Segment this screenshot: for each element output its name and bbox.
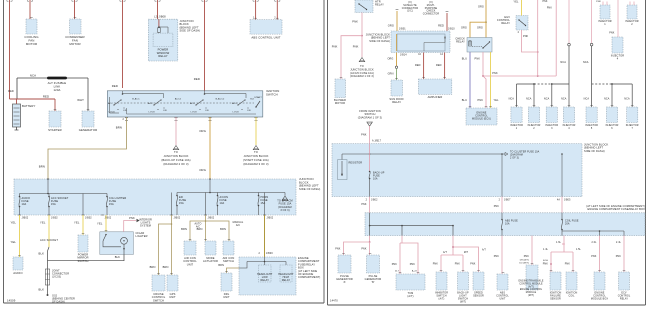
svg-text:LOCK: LOCK — [233, 112, 240, 114]
svg-text:M/T: M/T — [464, 252, 469, 254]
svg-text:RELAY: RELAY — [620, 298, 629, 301]
svg-text:J/B14: J/B14 — [400, 54, 407, 57]
svg-text:MOTOR: MOTOR — [69, 42, 80, 46]
svg-text:ACC: ACC — [148, 102, 153, 105]
svg-text:LOCK: LOCK — [149, 112, 156, 114]
svg-text:ORG: ORG — [477, 27, 483, 30]
svg-text:AMPLIFIER: AMPLIFIER — [428, 95, 443, 99]
svg-text:ORG: ORG — [199, 129, 206, 133]
svg-text:(DIAGRAM 3 OF 3): (DIAGRAM 3 OF 3) — [243, 162, 268, 166]
svg-text:1.6L: 1.6L — [556, 242, 562, 244]
svg-text:ORG: ORG — [387, 58, 393, 61]
svg-text:NCA: NCA — [624, 98, 630, 101]
svg-text:WHT: WHT — [77, 98, 84, 102]
svg-text:YEL: YEL — [11, 221, 17, 225]
svg-text:14470: 14470 — [330, 299, 338, 303]
svg-text:NCA: NCA — [30, 74, 36, 78]
svg-text:(START FUSE 10A): (START FUSE 10A) — [243, 158, 269, 162]
svg-text:ACC2: ACC2 — [175, 98, 182, 101]
svg-text:RELAY: RELAY — [260, 279, 269, 282]
svg-text:RED: RED — [43, 95, 49, 99]
svg-text:CONTROL MODULE: CONTROL MODULE — [519, 283, 543, 285]
svg-text:(BACK-UP FUSE 10A): (BACK-UP FUSE 10A) — [161, 158, 190, 162]
svg-text:J/B02: J/B02 — [208, 216, 215, 219]
svg-text:PNK: PNK — [492, 72, 498, 75]
svg-text:BRN: BRN — [218, 264, 224, 267]
svg-text:NCA: NCA — [584, 98, 590, 101]
svg-text:SWITCH: SWITCH — [153, 298, 164, 302]
svg-text:UNIT: UNIT — [169, 295, 176, 299]
svg-text:BATTERY: BATTERY — [22, 104, 35, 108]
svg-text:A/T: A/T — [443, 251, 447, 254]
svg-text:(J/C): (J/C) — [407, 10, 413, 13]
svg-text:10A: 10A — [220, 202, 225, 205]
svg-text:YEL: YEL — [11, 240, 17, 244]
svg-text:(DIAGRAM 1 OF 3): (DIAGRAM 1 OF 3) — [358, 115, 382, 119]
svg-text:NCA: NCA — [583, 61, 589, 64]
svg-text:B-ACC: B-ACC — [132, 98, 140, 101]
svg-text:BRN: BRN — [39, 165, 45, 169]
svg-text:JUNCTION BLOCK: JUNCTION BLOCK — [163, 154, 188, 158]
svg-text:PNK: PNK — [361, 203, 367, 206]
svg-text:LOCK: LOCK — [191, 112, 198, 114]
svg-text:(J/C03): (J/C03) — [52, 276, 61, 279]
svg-text:(J) J/B08: (J) J/B08 — [154, 15, 166, 19]
svg-text:YEL: YEL — [97, 222, 103, 226]
svg-text:NCA: NCA — [561, 98, 567, 101]
svg-text:A/C: A/C — [236, 224, 240, 227]
svg-text:20A: 20A — [565, 223, 570, 226]
svg-text:RELAY: RELAY — [392, 100, 401, 104]
svg-text:PNK: PNK — [129, 216, 135, 220]
svg-text:(A/T): (A/T) — [407, 295, 413, 298]
svg-text:BLU: BLU — [462, 58, 467, 61]
svg-text:15A: 15A — [109, 203, 114, 206]
svg-text:10A: 10A — [22, 203, 27, 206]
svg-text:PNK: PNK — [616, 255, 622, 258]
svg-text:PNK: PNK — [410, 263, 416, 266]
svg-text:YEL: YEL — [494, 99, 500, 102]
svg-text:D0 (M/T): D0 (M/T) — [519, 262, 529, 264]
svg-text:MOTOR: MOTOR — [335, 101, 345, 105]
svg-text:RESISTOR: RESISTOR — [349, 162, 363, 165]
svg-text:RED: RED — [415, 64, 421, 67]
svg-text:AUDIO: AUDIO — [13, 271, 23, 275]
svg-text:ORG: ORG — [199, 168, 206, 172]
svg-text:PNK: PNK — [494, 205, 500, 208]
svg-text:ACC SOCKET: ACC SOCKET — [40, 238, 58, 242]
svg-text:J/B02: J/B02 — [267, 216, 274, 219]
svg-text:J/B02: J/B02 — [51, 216, 58, 219]
svg-text:PNK: PNK — [470, 263, 476, 266]
svg-text:BRN: BRN — [150, 265, 156, 269]
svg-text:RELAY: RELAY — [501, 22, 510, 25]
svg-text:ORG: ORG — [461, 27, 467, 30]
svg-text:ORG: ORG — [388, 24, 394, 28]
svg-text:PNK: PNK — [352, 20, 358, 24]
svg-text:GENERATOR: GENERATOR — [79, 128, 98, 132]
svg-text:4A: 4A — [557, 199, 560, 202]
svg-text:PNK: PNK — [361, 248, 367, 251]
svg-text:J/B05: J/B05 — [564, 200, 571, 202]
svg-text:SENSOR: SENSOR — [473, 295, 484, 298]
svg-text:PNK: PNK — [565, 263, 571, 266]
svg-text:J/B03: J/B03 — [266, 252, 273, 255]
svg-text:BLU: BLU — [462, 99, 467, 102]
svg-text:GRN: GRN — [388, 73, 394, 76]
svg-text:JUNCTION BLOCK: JUNCTION BLOCK — [243, 154, 268, 158]
svg-text:A-22: A-22 — [412, 270, 418, 273]
svg-text:RELAY: RELAY — [375, 3, 384, 7]
svg-text:BLK: BLK — [39, 288, 45, 292]
svg-text:SYSTEM: SYSTEM — [140, 225, 151, 228]
svg-text:J/B02: J/B02 — [85, 216, 92, 219]
svg-text:NCA: NCA — [509, 98, 515, 101]
svg-text:PNK: PNK — [543, 263, 549, 266]
svg-text:START: START — [254, 96, 262, 99]
svg-text:3 OF 3): 3 OF 3) — [280, 209, 289, 212]
svg-text:(DIAGRAM 2 OF 3): (DIAGRAM 2 OF 3) — [163, 162, 188, 166]
svg-text:YEL: YEL — [74, 221, 80, 225]
svg-text:UNIT: UNIT — [223, 295, 230, 299]
svg-text:STARTER: STARTER — [48, 128, 62, 132]
svg-text:J/B01: J/B01 — [399, 28, 406, 31]
svg-text:PNK: PNK — [433, 263, 439, 266]
svg-text:ACC: ACC — [232, 102, 237, 105]
svg-text:MODULE BOX: MODULE BOX — [591, 298, 608, 301]
svg-text:MOTOR: MOTOR — [26, 42, 37, 46]
svg-text:2.4L: 2.4L — [616, 242, 622, 244]
svg-text:OF DASH): OF DASH) — [52, 301, 65, 304]
svg-text:BLK: BLK — [39, 252, 45, 256]
svg-text:ORG: ORG — [478, 6, 484, 9]
svg-text:ON: ON — [205, 110, 209, 112]
svg-text:MODULE (ECU): MODULE (ECU) — [472, 118, 491, 121]
svg-text:SOH: SOH — [543, 260, 548, 262]
svg-text:(M/T): (M/T) — [460, 301, 466, 304]
svg-text:PNK: PNK — [591, 255, 597, 258]
svg-text:A J/B17: A J/B17 — [372, 140, 382, 143]
svg-text:ENGINE COMPARTMENT FUSE/RELAY: ENGINE COMPARTMENT FUSE/RELAY BOX — [588, 207, 646, 211]
svg-text:RELAY: RELAY — [456, 40, 465, 44]
svg-text:SIDE OF DASH): SIDE OF DASH) — [369, 39, 390, 43]
svg-text:15A: 15A — [51, 203, 56, 206]
svg-text:10A: 10A — [373, 178, 378, 181]
svg-text:J/B02: J/B02 — [22, 216, 29, 219]
svg-text:NCA: NCA — [560, 61, 566, 64]
svg-text:RED: RED — [438, 24, 444, 28]
svg-text:120A: 120A — [53, 88, 60, 92]
svg-text:RELAY: RELAY — [158, 54, 167, 58]
svg-text:PNK: PNK — [547, 8, 552, 10]
svg-text:14509: 14509 — [7, 299, 16, 303]
svg-text:PNK: PNK — [335, 248, 341, 251]
svg-text:UNIT: UNIT — [187, 262, 194, 266]
svg-text:ON: ON — [163, 110, 167, 112]
svg-text:ON: ON — [123, 110, 127, 112]
svg-text:PNK: PNK — [609, 32, 615, 35]
svg-text:PNK: PNK — [524, 255, 530, 258]
svg-text:ON: ON — [247, 110, 251, 112]
svg-text:BRN: BRN — [220, 227, 226, 231]
svg-text:1.4L: 1.4L — [543, 249, 549, 251]
svg-text:ACTUATOR: ACTUATOR — [203, 259, 218, 263]
svg-text:ACC: ACC — [190, 102, 195, 105]
svg-text:RED: RED — [194, 77, 200, 81]
svg-text:NCA: NCA — [544, 98, 550, 101]
svg-text:COIL: COIL — [568, 295, 575, 298]
svg-text:UNIT: UNIT — [499, 298, 505, 301]
svg-text:J/B10: J/B10 — [448, 28, 455, 31]
svg-text:2.0L: 2.0L — [592, 242, 598, 244]
svg-text:SWITCH: SWITCH — [223, 259, 234, 263]
svg-text:YEL: YEL — [513, 1, 519, 4]
svg-text:BRN: BRN — [116, 126, 122, 130]
svg-text:LIGHTER: LIGHTER — [136, 234, 148, 238]
svg-text:RELAY: RELAY — [282, 279, 291, 282]
svg-text:PNK: PNK — [494, 255, 500, 258]
svg-text:TO: TO — [254, 150, 258, 154]
svg-text:BLK: BLK — [115, 255, 120, 259]
svg-text:J/B07: J/B07 — [504, 200, 511, 202]
svg-text:PNK: PNK — [474, 58, 480, 61]
svg-text:SIDE OF DASH): SIDE OF DASH) — [299, 187, 320, 191]
svg-text:RED: RED — [436, 64, 442, 67]
svg-text:PNK: PNK — [332, 45, 338, 49]
svg-text:D8 (A/T): D8 (A/T) — [520, 259, 529, 262]
svg-text:1.5L: 1.5L — [576, 249, 582, 251]
svg-text:'A': 'A' — [343, 281, 346, 284]
svg-text:YEL: YEL — [40, 221, 46, 225]
svg-text:ENGINE/TRANSAXLE: ENGINE/TRANSAXLE — [518, 280, 543, 283]
svg-text:ABS CONTROL UNIT: ABS CONTROL UNIT — [251, 35, 280, 39]
svg-text:(DIAGRAM 1 OF 3): (DIAGRAM 1 OF 3) — [350, 75, 374, 78]
svg-text:SIDE OF DASH): SIDE OF DASH) — [584, 149, 605, 153]
svg-text:J/B02: J/B02 — [371, 200, 378, 202]
svg-text:NCA: NCA — [526, 98, 532, 101]
svg-text:ACC: ACC — [108, 102, 113, 105]
svg-text:10A: 10A — [505, 223, 510, 226]
svg-text:PNK: PNK — [542, 1, 547, 3]
svg-text:A-7: A-7 — [395, 270, 399, 273]
svg-text:NCA: NCA — [604, 98, 610, 101]
svg-text:RED: RED — [112, 84, 118, 88]
svg-text:BRN: BRN — [163, 265, 169, 269]
svg-text:SWITCH: SWITCH — [266, 92, 278, 96]
svg-text:MODULE: MODULE — [526, 292, 537, 294]
svg-text:COMPARTMENT): COMPARTMENT) — [298, 275, 320, 279]
svg-text:(A/T): (A/T) — [439, 298, 445, 301]
svg-text:SENSOR: SENSOR — [550, 298, 561, 301]
svg-text:A/T: A/T — [482, 249, 486, 252]
svg-text:PNK: PNK — [523, 35, 529, 38]
svg-text:CONNECTOR: CONNECTOR — [423, 13, 440, 16]
svg-text:LOCK: LOCK — [109, 112, 116, 114]
svg-text:SIDE OF DASH): SIDE OF DASH) — [180, 29, 201, 33]
svg-text:BRN: BRN — [181, 227, 187, 231]
svg-text:(A/T): (A/T) — [528, 285, 534, 288]
svg-text:RED: RED — [8, 90, 14, 93]
svg-text:ENGINE CONTROL: ENGINE CONTROL — [520, 289, 543, 291]
svg-text:PNK: PNK — [455, 263, 461, 266]
svg-text:'B': 'B' — [372, 281, 375, 284]
svg-text:J/B02: J/B02 — [174, 216, 181, 219]
svg-text:(M/T): (M/T) — [528, 295, 534, 297]
svg-text:PNK: PNK — [596, 1, 601, 3]
svg-text:A/C: A/C — [196, 226, 200, 229]
svg-text:15A: 15A — [179, 202, 184, 205]
svg-text:PNK: PNK — [392, 263, 398, 266]
svg-text:2 OF 3): 2 OF 3) — [510, 157, 519, 160]
svg-text:PNK: PNK — [353, 45, 359, 49]
svg-text:TO: TO — [174, 150, 178, 154]
svg-text:PNK: PNK — [361, 134, 367, 137]
svg-text:PNK: PNK — [477, 99, 483, 102]
svg-text:B-ACC2: B-ACC2 — [216, 98, 225, 101]
